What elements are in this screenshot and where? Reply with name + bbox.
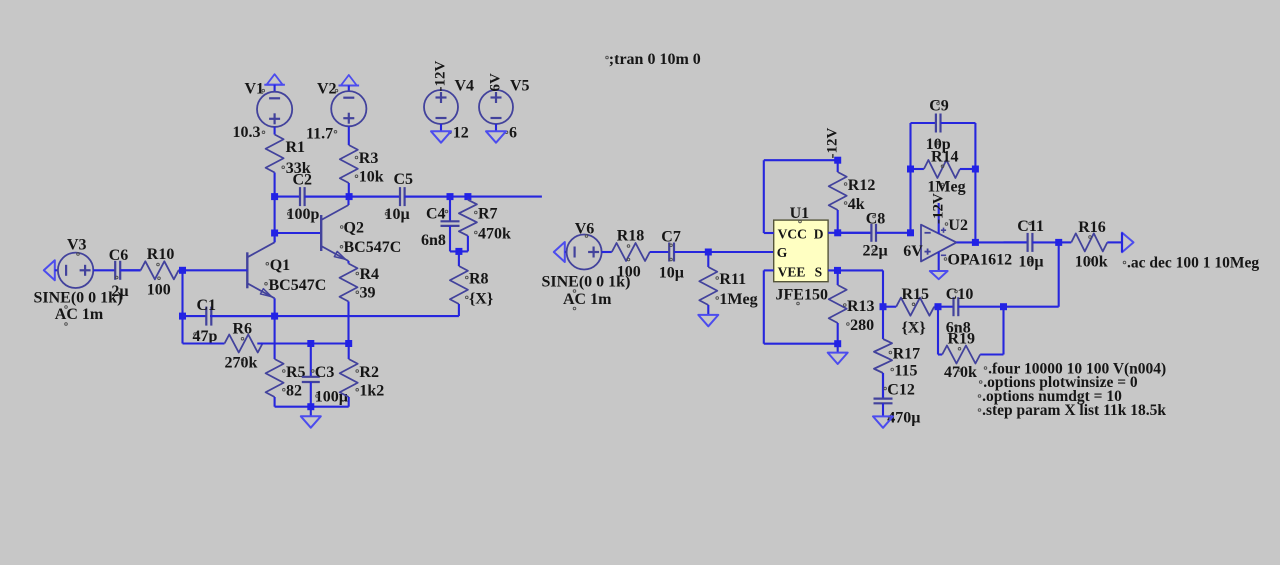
node N003: [447, 193, 454, 200]
wire: [909, 123, 911, 233]
svg-text:R19: R19: [948, 331, 976, 348]
wire: [210, 315, 459, 317]
transistor Q2: [321, 197, 401, 261]
svg-text:115: 115: [894, 363, 917, 380]
wire: [181, 316, 183, 343]
resistor R11: [699, 252, 757, 315]
wire: [941, 122, 976, 124]
resistor R10: [120, 246, 182, 299]
svg-text:280: 280: [850, 317, 874, 334]
node N021: [1000, 303, 1007, 310]
wire: [179, 269, 248, 271]
svg-text:C9: C9: [929, 97, 949, 114]
wire: [305, 196, 400, 198]
svg-text:V4: V4: [455, 78, 475, 95]
resistor R12: [829, 160, 876, 233]
svg-text:6V: 6V: [488, 73, 504, 92]
svg-text:100: 100: [617, 264, 641, 281]
svg-text:C4: C4: [426, 206, 446, 223]
ground (input V6): [554, 242, 565, 262]
svg-text:10.3: 10.3: [233, 124, 261, 141]
svg-text:S: S: [815, 264, 823, 279]
svg-text:V3: V3: [67, 237, 87, 254]
svg-text:6V: 6V: [903, 243, 923, 260]
capacitor C7: [650, 229, 709, 282]
svg-text:.ac dec 100 1 10Meg: .ac dec 100 1 10Meg: [1127, 254, 1259, 271]
node N006: [179, 267, 186, 274]
wire: [405, 196, 542, 198]
directive .step: [978, 402, 1166, 419]
node N023: [972, 166, 979, 173]
voltage source V1: [233, 81, 293, 142]
svg-text:C8: C8: [866, 211, 886, 228]
svg-text:R7: R7: [478, 206, 498, 223]
resistor R4: [340, 261, 380, 344]
ground (input V3): [44, 260, 55, 280]
svg-text:{X}: {X}: [902, 320, 926, 337]
svg-text:R11: R11: [719, 271, 746, 288]
capacitor C5: [349, 171, 450, 223]
ground: [301, 416, 321, 427]
wire: [764, 160, 838, 233]
wire: [956, 241, 1026, 243]
ground: [486, 131, 506, 142]
svg-text:R14: R14: [931, 148, 959, 165]
wire: [1004, 242, 1059, 306]
ground: [698, 315, 718, 326]
wire: [257, 342, 348, 344]
node N016: [907, 229, 914, 236]
svg-text:1Meg: 1Meg: [719, 291, 757, 308]
voltage source V5: [479, 73, 530, 142]
wire: [93, 269, 115, 271]
svg-text:AC 1m: AC 1m: [563, 291, 612, 308]
node N015: [834, 229, 841, 236]
svg-text:SINE(0 0 1k): SINE(0 0 1k): [34, 290, 123, 307]
wire: [310, 407, 312, 417]
svg-text:-12V: -12V: [930, 193, 946, 224]
svg-text:82: 82: [286, 383, 302, 400]
svg-text:C1: C1: [197, 297, 217, 314]
svg-text:100k: 100k: [1075, 254, 1108, 271]
svg-text:BC547C: BC547C: [344, 239, 402, 256]
svg-text:VCC: VCC: [778, 227, 807, 242]
output port: [1122, 233, 1134, 253]
capacitor C11: [1004, 218, 1059, 271]
node N019: [880, 303, 887, 310]
resistor R2: [340, 344, 385, 407]
svg-text:-12V: -12V: [825, 128, 841, 159]
svg-text:470k: 470k: [478, 225, 511, 242]
resistor R16: [1059, 219, 1122, 271]
svg-text:V5: V5: [510, 78, 530, 95]
wire: [882, 270, 884, 306]
capacitor C9: [911, 97, 976, 153]
svg-text:C7: C7: [661, 229, 681, 246]
node N018: [834, 340, 841, 347]
svg-text:V2: V2: [317, 81, 337, 98]
svg-text:270k: 270k: [225, 355, 258, 372]
capacitor C3: [302, 344, 348, 407]
svg-text:JFE150: JFE150: [776, 286, 828, 303]
resistor R8: [450, 251, 493, 316]
svg-text:11.7: 11.7: [306, 126, 333, 143]
svg-text:{X}: {X}: [469, 290, 493, 307]
svg-text:C2: C2: [293, 172, 313, 189]
resistor R6: [183, 321, 263, 372]
capacitor C1: [183, 297, 275, 345]
capacitor C10: [938, 286, 1004, 337]
svg-text:C5: C5: [394, 171, 414, 188]
node N024: [972, 239, 979, 246]
directive ;tran: [606, 51, 701, 68]
resistor R17: [874, 307, 920, 399]
svg-text:1k2: 1k2: [359, 383, 384, 400]
svg-text:Q1: Q1: [270, 257, 290, 274]
node N017: [834, 267, 841, 274]
svg-text:10µ: 10µ: [1018, 254, 1043, 271]
node N013: [705, 249, 712, 256]
wire: [674, 251, 774, 253]
capacitor C12: [874, 373, 921, 427]
svg-text:470k: 470k: [944, 364, 977, 381]
capacitor C8: [838, 211, 911, 260]
svg-text:R8: R8: [469, 271, 489, 288]
wire: [974, 123, 976, 242]
svg-text:Q2: Q2: [344, 220, 364, 237]
svg-text:100: 100: [147, 282, 171, 299]
svg-text:U2: U2: [948, 217, 968, 234]
svg-text:10µ: 10µ: [659, 265, 684, 282]
svg-text:U1: U1: [790, 205, 810, 222]
wire: [275, 406, 349, 408]
node N007: [179, 313, 186, 320]
ground: [431, 131, 451, 142]
ground: [828, 353, 848, 364]
node N025: [1055, 239, 1062, 246]
capacitor C2: [287, 172, 350, 224]
svg-text:C10: C10: [946, 286, 974, 303]
svg-text:C3: C3: [315, 364, 335, 381]
svg-text:R10: R10: [147, 246, 175, 263]
resistor R15: [883, 286, 938, 337]
svg-text:R15: R15: [902, 286, 930, 303]
svg-text:C11: C11: [1017, 218, 1044, 235]
wire: [911, 122, 937, 124]
svg-text:C6: C6: [109, 247, 129, 264]
capacitor C6: [109, 247, 141, 300]
svg-text:VEE: VEE: [778, 264, 806, 279]
svg-text:R16: R16: [1078, 219, 1106, 236]
voltage source V6: [542, 221, 631, 310]
svg-text:R4: R4: [360, 266, 380, 283]
wire: [1002, 307, 1004, 355]
resistor R18: [602, 228, 669, 281]
node N005: [271, 230, 278, 237]
svg-text:2µ: 2µ: [111, 283, 128, 300]
svg-text:G: G: [777, 245, 788, 260]
svg-text:R3: R3: [359, 150, 379, 167]
node N002: [346, 193, 353, 200]
resistor R13: [829, 270, 875, 343]
resistor R3: [340, 126, 384, 196]
svg-text:R12: R12: [848, 177, 876, 194]
svg-text:AC 1m: AC 1m: [55, 306, 104, 323]
resistor R19: [938, 331, 1004, 382]
node N020: [935, 303, 942, 310]
svg-text:R2: R2: [359, 364, 379, 381]
net label -12V: [825, 128, 841, 159]
wire: [450, 250, 468, 252]
node N022: [907, 166, 914, 173]
resistor R1: [266, 127, 311, 197]
svg-text:10k: 10k: [359, 169, 384, 186]
node N014: [834, 157, 841, 164]
svg-text:100p: 100p: [287, 206, 320, 223]
svg-text:10µ: 10µ: [385, 206, 410, 223]
wire: [181, 270, 183, 316]
net label -12V (U2 supply): [930, 193, 946, 224]
wire: [275, 196, 299, 198]
svg-text:-12V: -12V: [433, 61, 449, 92]
capacitor C4: [421, 197, 460, 252]
op-amp U2: [921, 203, 1012, 271]
wire: [275, 232, 322, 234]
svg-text:BC547C: BC547C: [269, 277, 327, 294]
svg-text:6: 6: [509, 125, 517, 142]
svg-text:1Meg: 1Meg: [927, 178, 965, 195]
node N011: [307, 403, 314, 410]
directive .four: [984, 360, 1166, 377]
IC U1 JFE150: [774, 205, 828, 305]
svg-text:V1: V1: [245, 81, 265, 98]
svg-text:6n8: 6n8: [421, 232, 446, 249]
node N004: [464, 193, 471, 200]
voltage source V3: [34, 237, 123, 326]
directive .options plotwinsize: [979, 374, 1138, 391]
svg-text:4k: 4k: [848, 196, 865, 213]
svg-text:R6: R6: [233, 321, 253, 338]
power flag V2: [339, 75, 360, 86]
svg-text:12: 12: [453, 125, 469, 142]
voltage source V2: [306, 81, 366, 143]
svg-text:R17: R17: [893, 346, 921, 363]
svg-text:.step param X list 11k 18.5k: .step param X list 11k 18.5k: [982, 402, 1166, 419]
svg-text:C12: C12: [887, 382, 915, 399]
wire: [828, 269, 883, 271]
svg-text:;tran 0 10m 0: ;tran 0 10m 0: [609, 51, 701, 68]
node N001: [271, 193, 278, 200]
svg-text:R18: R18: [617, 228, 645, 245]
svg-text:R1: R1: [286, 139, 306, 156]
node N012: [455, 248, 462, 255]
directive .ac: [1123, 254, 1259, 271]
power flag V1: [264, 74, 285, 85]
transistor Q1: [247, 233, 326, 316]
wire: [937, 307, 939, 355]
svg-text:D: D: [814, 227, 824, 242]
svg-text:R13: R13: [847, 298, 875, 315]
wire: [764, 270, 838, 343]
wire: [828, 232, 871, 234]
wire: [274, 197, 276, 233]
net label 6V (U2 +input): [903, 243, 923, 260]
svg-text:39: 39: [360, 285, 376, 302]
svg-text:OPA1612: OPA1612: [948, 252, 1013, 269]
node N008: [271, 313, 278, 320]
voltage source V4: [424, 61, 474, 142]
directive .options numdgt: [978, 388, 1122, 405]
resistor R7: [459, 197, 511, 252]
ground: [873, 416, 893, 427]
svg-text:R5: R5: [286, 364, 306, 381]
resistor R5: [266, 316, 306, 407]
resistor R14: [911, 148, 976, 195]
ground (U2 V-): [930, 271, 948, 279]
node N009: [307, 340, 314, 347]
svg-text:V6: V6: [575, 221, 595, 238]
wire: [837, 344, 839, 353]
node N010: [345, 340, 352, 347]
